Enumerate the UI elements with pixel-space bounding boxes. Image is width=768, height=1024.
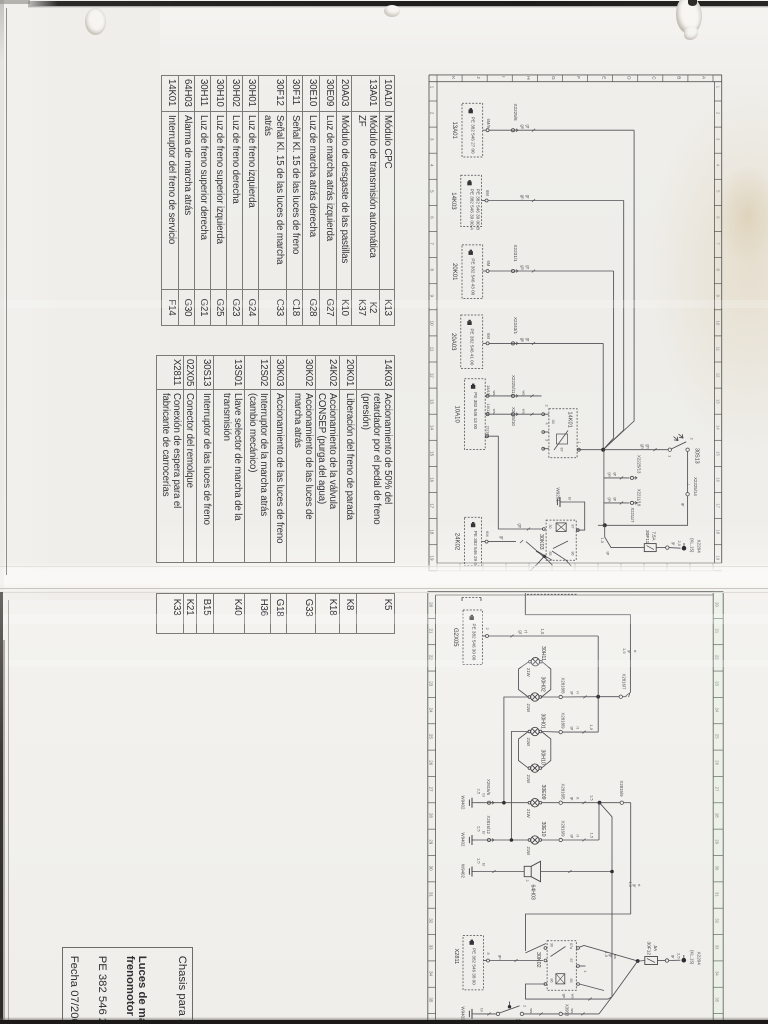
svg-text:X2818/9: X2818/9	[561, 713, 566, 730]
connector X2225/8	[511, 104, 518, 132]
fuse 30F12 5A	[640, 942, 658, 965]
connector X2818/8	[542, 678, 566, 699]
ground W9402 third	[461, 858, 487, 878]
svg-text:D: D	[626, 76, 631, 80]
svg-text:6M: 6M	[486, 333, 491, 339]
module X2811 (body builder connector)	[453, 936, 483, 990]
svg-text:31: 31	[715, 892, 720, 897]
svg-text:27: 27	[428, 787, 433, 792]
wire lamp pair 2 ground side	[511, 732, 528, 841]
svg-text:gr: gr	[525, 338, 530, 342]
svg-text:14K01: 14K01	[567, 412, 573, 428]
svg-text:13: 13	[715, 399, 720, 404]
svg-text:X2211/7: X2211/7	[630, 508, 635, 524]
svg-text:br: br	[482, 863, 487, 867]
svg-text:1: 1	[715, 86, 720, 89]
svg-text:X2225/10: X2225/10	[511, 407, 516, 426]
svg-text:PE 382 546 38 00: PE 382 546 38 00	[472, 948, 477, 985]
connector X2816/9	[542, 821, 566, 842]
pin 24K02 output	[482, 531, 490, 543]
lamp 30H01 (left brake lamp)	[526, 714, 546, 747]
svg-text:16: 16	[715, 477, 720, 482]
connector X2225/14	[681, 477, 698, 507]
wire 30K02 output to fuse node	[579, 946, 637, 962]
lamp 30E10 (right reverse lamp)	[526, 822, 546, 856]
svg-text:30H02: 30H02	[540, 677, 546, 692]
top edge dark strip	[28, 1, 768, 6]
svg-text:PE 382 546 30 00: PE 382 546 30 00	[472, 624, 477, 661]
sheet 1 row number ruler (bottom of original, numbers 1-19)	[429, 75, 722, 571]
wire ground to lamp 30E09	[476, 802, 528, 804]
svg-text:30: 30	[428, 866, 433, 871]
legend table 2 code column	[156, 593, 395, 634]
pin 14K01 output pin 1	[577, 442, 581, 452]
svg-text:gn: gn	[520, 195, 525, 200]
lamp 30H02 (right brake lamp)	[526, 677, 546, 713]
svg-text:8: 8	[486, 953, 490, 955]
terminal X2204 (KL.15) sheet1	[682, 538, 702, 553]
svg-text:A: A	[702, 76, 707, 80]
wire X2225/14 down and left to node	[605, 496, 688, 525]
svg-text:14: 14	[430, 425, 435, 430]
pin 30K02 pins	[544, 947, 579, 986]
svg-text:3: 3	[715, 138, 720, 141]
schematic sheet 2 border frame	[428, 592, 723, 1024]
node fuse junction	[636, 959, 640, 963]
svg-text:16/11: 16/11	[486, 404, 491, 414]
svg-text:30: 30	[548, 525, 552, 529]
svg-text:20: 20	[428, 602, 433, 607]
node 64H03 bus dot	[610, 870, 614, 874]
connector X2225/10	[511, 407, 518, 426]
svg-text:br: br	[482, 831, 487, 835]
svg-text:20: 20	[715, 602, 720, 607]
punch hole 2	[384, 5, 400, 17]
wire connector to diagonal (ws)	[562, 1008, 599, 1015]
connector X2816/12	[486, 816, 494, 842]
svg-text:gr: gr	[525, 265, 530, 269]
svg-text:G: G	[551, 76, 556, 80]
svg-text:35: 35	[715, 997, 720, 1002]
svg-text:1,5: 1,5	[590, 795, 595, 801]
wire X2811 to relay 30K02 (gn)	[490, 955, 544, 962]
svg-text:4: 4	[545, 423, 549, 425]
svg-text:11: 11	[715, 347, 720, 352]
wire fold feed to X2816/7	[525, 592, 638, 698]
module 24K02 (CONSEP valve)	[454, 517, 482, 566]
fold seam band	[0, 563, 768, 591]
connector X2818/9	[542, 713, 566, 734]
svg-text:(KL.15): (KL.15)	[689, 950, 694, 965]
svg-text:X2816/6: X2816/6	[486, 779, 491, 796]
svg-text:30K03: 30K03	[538, 534, 544, 550]
svg-text:30F11: 30F11	[644, 530, 650, 544]
svg-text:X2211/18: X2211/18	[637, 489, 642, 507]
svg-text:86: 86	[550, 979, 554, 983]
wire junction drop	[603, 450, 605, 526]
svg-text:6M: 6M	[485, 531, 490, 537]
lamp 30H11 (right upper brake lamp)	[526, 646, 546, 677]
bottom edge dark strip	[0, 1020, 768, 1024]
svg-text:11: 11	[430, 347, 435, 352]
svg-text:gr: gr	[525, 195, 530, 199]
module 13A01 (ZF transmission module)	[451, 103, 483, 157]
wire bus G2X05 corner	[597, 636, 599, 697]
svg-text:14: 14	[715, 425, 720, 430]
svg-text:X2225/11: X2225/11	[511, 375, 516, 394]
svg-text:13: 13	[430, 399, 435, 404]
legend table 2	[156, 355, 395, 563]
module fragment at fold left	[462, 598, 481, 602]
svg-text:X2225/8: X2225/8	[513, 104, 518, 122]
ground W9402 second	[461, 826, 487, 847]
svg-text:gr: gr	[606, 552, 611, 556]
svg-text:19: 19	[715, 556, 720, 561]
svg-text:3: 3	[430, 138, 435, 141]
connector X2818/5	[542, 784, 566, 805]
svg-text:gn: gn	[640, 444, 645, 449]
svg-text:gr: gr	[681, 503, 686, 507]
svg-text:2: 2	[525, 880, 529, 882]
svg-text:1,5: 1,5	[476, 858, 481, 864]
svg-text:1: 1	[686, 484, 690, 486]
svg-text:18: 18	[715, 529, 720, 534]
svg-text:4: 4	[715, 164, 720, 167]
svg-text:ws: ws	[571, 994, 576, 999]
wire lamp pair 1 parallel loop	[519, 662, 551, 697]
svg-text:PE 382 546 41 00: PE 382 546 41 00	[469, 329, 474, 366]
svg-text:15: 15	[715, 451, 720, 456]
wire 30K02 lower right stub	[579, 984, 604, 991]
svg-text:87: 87	[571, 525, 575, 529]
svg-text:34: 34	[715, 971, 720, 976]
wire switch to connector (ws)	[524, 1008, 559, 1015]
pin 10A10 18/15	[485, 385, 491, 397]
svg-text:PE 382 546 39 00-A: PE 382 546 39 00-A	[469, 189, 474, 231]
svg-text:gn: gn	[520, 265, 525, 270]
svg-text:2: 2	[545, 405, 549, 407]
wire 14K03 to junction (gn/gr)	[488, 195, 624, 450]
svg-text:19: 19	[430, 556, 435, 561]
svg-text:2: 2	[715, 112, 720, 115]
svg-text:5: 5	[715, 190, 720, 193]
svg-text:25: 25	[715, 734, 720, 739]
svg-text:ws: ws	[492, 409, 497, 414]
wire relay blade	[526, 944, 547, 953]
pin 14K03 output	[482, 190, 490, 202]
wire junction to 30S13 (gn/gn)	[603, 444, 668, 451]
svg-text:3: 3	[545, 439, 549, 441]
svg-text:X2818/5: X2818/5	[561, 784, 566, 801]
wire G2X05 to bus (gr/rt 1,5)	[489, 629, 599, 638]
svg-text:31: 31	[428, 892, 433, 897]
svg-text:21W: 21W	[526, 668, 531, 677]
ground W9402 first	[461, 789, 487, 810]
svg-text:X2816/9: X2816/9	[561, 821, 566, 838]
svg-text:13A01: 13A01	[451, 121, 457, 139]
connector X2231/1	[511, 245, 518, 273]
svg-text:X2204: X2204	[697, 540, 702, 554]
svg-text:W9201: W9201	[556, 488, 561, 503]
svg-text:X2225/13: X2225/13	[637, 455, 642, 474]
svg-text:30: 30	[715, 866, 720, 871]
module 20A03 (pad wear module)	[450, 315, 483, 369]
svg-text:15: 15	[430, 451, 435, 456]
svg-text:rt: rt	[575, 835, 580, 838]
svg-text:gr: gr	[672, 542, 677, 546]
svg-text:30K02: 30K02	[535, 952, 541, 968]
wire 14K01 to main junction	[581, 449, 604, 451]
node main junction (brake light signal)	[601, 448, 605, 452]
svg-text:gr: gr	[671, 955, 676, 959]
svg-text:2,5: 2,5	[677, 953, 682, 959]
svg-text:30: 30	[550, 943, 554, 947]
svg-text:18/15: 18/15	[486, 385, 491, 396]
svg-text:br: br	[482, 794, 487, 798]
svg-text:rt: rt	[575, 691, 580, 694]
connector X2815/9	[601, 781, 630, 805]
label bus colors	[628, 882, 642, 889]
svg-text:25: 25	[428, 734, 433, 739]
pin 20A03 output	[483, 333, 491, 345]
scanner streak bands	[0, 614, 768, 624]
wire 30K03 contacts to fold	[536, 551, 569, 564]
svg-text:gr: gr	[518, 630, 523, 634]
wire 20K01 to junction (gn/gr)	[489, 265, 613, 449]
node lower junction	[603, 523, 607, 527]
svg-text:G2X05: G2X05	[452, 628, 458, 647]
svg-text:17: 17	[430, 503, 435, 508]
module 14K03 (retarder 50% actuation)	[450, 175, 482, 231]
pin G2X05 output 2	[483, 628, 491, 638]
wire 10A10 to 14K01 pin 4 (ws)	[489, 409, 541, 416]
svg-text:1,5: 1,5	[628, 882, 633, 888]
wire ground to switch (br)	[476, 1008, 496, 1015]
svg-text:gr: gr	[613, 472, 618, 476]
svg-text:gn: gn	[646, 444, 651, 449]
svg-text:6M/9: 6M/9	[486, 119, 491, 129]
svg-text:(KL.15): (KL.15)	[690, 538, 695, 553]
svg-text:87: 87	[569, 959, 573, 963]
svg-text:gr: gr	[500, 536, 505, 540]
svg-text:ws: ws	[613, 954, 618, 959]
svg-text:W9402: W9402	[461, 796, 466, 810]
svg-text:35: 35	[428, 997, 433, 1002]
svg-text:87a: 87a	[569, 943, 573, 949]
wire bus down to lamp pair 2	[597, 697, 599, 732]
svg-text:9: 9	[430, 295, 435, 298]
svg-text:7,5A: 7,5A	[651, 532, 656, 541]
svg-text:16: 16	[430, 477, 435, 482]
svg-text:2,5: 2,5	[476, 789, 481, 795]
svg-text:X2815/9: X2815/9	[619, 781, 624, 798]
svg-text:10: 10	[715, 321, 720, 326]
svg-text:X2811: X2811	[453, 949, 459, 965]
connector X2243/1	[511, 317, 518, 345]
svg-text:gn: gn	[520, 125, 525, 130]
svg-text:1,5: 1,5	[540, 629, 545, 635]
svg-text:7: 7	[430, 242, 435, 245]
wire X2818/8 to bus node (gr/rt)	[562, 691, 598, 698]
svg-text:8: 8	[715, 268, 720, 271]
svg-text:30H01: 30H01	[540, 714, 546, 729]
svg-text:1,5: 1,5	[589, 725, 594, 731]
svg-text:21W: 21W	[526, 704, 531, 713]
svg-text:28: 28	[715, 813, 720, 818]
svg-text:21W: 21W	[526, 775, 531, 784]
svg-text:14K03: 14K03	[450, 192, 456, 210]
wire 64H03 to bus	[541, 870, 613, 873]
svg-text:br: br	[480, 1008, 485, 1012]
ground W9402 fourth	[461, 1007, 477, 1021]
svg-text:X2816/12: X2816/12	[486, 816, 491, 835]
svg-text:gr: gr	[632, 884, 637, 888]
svg-text:24: 24	[715, 708, 720, 713]
svg-text:5: 5	[430, 190, 435, 193]
svg-text:27: 27	[715, 787, 720, 792]
svg-text:W9402: W9402	[461, 833, 466, 847]
svg-text:1,5: 1,5	[622, 648, 627, 654]
svg-text:gr: gr	[570, 691, 575, 695]
connector X2225/11	[511, 375, 518, 398]
lamp 30H10 (left upper brake lamp)	[526, 750, 546, 784]
schematic sheet 1 border frame	[429, 75, 722, 571]
svg-text:30E09: 30E09	[540, 785, 546, 800]
svg-text:8: 8	[430, 268, 435, 271]
svg-text:rt: rt	[575, 797, 580, 800]
wire X2818/9 to bus (gr/rt 1,5)	[562, 725, 598, 734]
svg-text:85: 85	[569, 979, 573, 983]
pin 13A01 output	[483, 119, 491, 132]
svg-text:gr: gr	[570, 835, 575, 839]
wire X2816/9 up to reverse node (1,5 gr rt)	[562, 803, 599, 842]
svg-text:33: 33	[715, 945, 720, 950]
svg-text:br: br	[568, 497, 573, 501]
svg-text:,5A: ,5A	[653, 945, 658, 952]
title block	[62, 947, 193, 1024]
svg-text:X2204: X2204	[696, 952, 701, 966]
svg-text:32: 32	[715, 918, 720, 923]
svg-text:26: 26	[428, 760, 433, 765]
wire lamp pair 2 parallel loop	[519, 732, 551, 769]
wire node diagonal down to switch row	[599, 961, 638, 1014]
connector after fuse	[656, 541, 682, 550]
connector after fuse 30F12	[658, 953, 682, 962]
node ground rail pair2	[510, 838, 514, 842]
svg-text:21/16: 21/16	[485, 426, 490, 437]
svg-text:ws: ws	[522, 391, 527, 396]
svg-text:30F12: 30F12	[646, 942, 652, 956]
svg-text:I: I	[501, 76, 506, 77]
svg-text:PE 382 546 43 00: PE 382 546 43 00	[471, 258, 476, 295]
left edge shadow lines	[6, 8, 7, 575]
ground W9201	[556, 488, 573, 508]
svg-text:86: 86	[571, 552, 575, 556]
svg-text:34: 34	[428, 971, 433, 976]
connector X2816/6	[486, 779, 494, 804]
svg-text:6M: 6M	[485, 190, 490, 196]
connector X2816/7	[619, 674, 627, 699]
svg-text:J: J	[476, 76, 481, 78]
svg-text:X2816/7: X2816/7	[622, 674, 627, 691]
switch 12S02 (reverse gear switch)	[496, 1002, 527, 1024]
wire 24K02 diagonal to fold (gr)	[488, 536, 552, 566]
svg-text:12: 12	[715, 373, 720, 378]
svg-text:1,5: 1,5	[590, 833, 595, 839]
svg-text:rt: rt	[523, 630, 528, 633]
svg-text:12: 12	[430, 373, 435, 378]
svg-text:PE 382 546 27 00: PE 382 546 27 00	[471, 117, 476, 154]
svg-text:K: K	[451, 76, 456, 80]
punch hole 3 (torn)	[676, 0, 702, 34]
svg-text:1: 1	[430, 86, 435, 89]
wire 30K03 to ground W9201	[564, 502, 585, 531]
module fragment at fold (30K02 mirror)	[527, 593, 578, 595]
svg-text:6: 6	[715, 216, 720, 219]
svg-text:30H10: 30H10	[540, 750, 546, 765]
wire ground to lamp 30E10	[476, 839, 528, 841]
module 20K01 (park brake release)	[451, 245, 483, 299]
svg-text:30E10: 30E10	[540, 822, 546, 837]
wire 30S13 down to X2225/14	[687, 451, 689, 492]
svg-text:gn: gn	[562, 994, 567, 998]
svg-text:29: 29	[428, 839, 433, 844]
svg-text:gn: gn	[608, 497, 613, 501]
svg-text:30: 30	[551, 420, 555, 424]
svg-text:24K02: 24K02	[454, 533, 460, 551]
svg-text:gn: gn	[608, 472, 613, 476]
svg-text:64H03: 64H03	[530, 885, 536, 900]
svg-text:E: E	[601, 76, 606, 79]
svg-text:21W: 21W	[526, 809, 531, 818]
svg-text:X2818/8: X2818/8	[561, 678, 566, 695]
svg-text:1: 1	[668, 455, 673, 458]
relay 30K03 (brake light relay)	[538, 520, 576, 560]
svg-text:2: 2	[430, 112, 435, 115]
connector X2225/13 stub	[604, 455, 642, 480]
node reverse lamp junction	[598, 801, 602, 805]
svg-text:21: 21	[715, 629, 720, 634]
svg-text:gr: gr	[570, 797, 575, 801]
wire bus into fuse node labels	[604, 952, 618, 959]
svg-text:21W: 21W	[526, 738, 531, 747]
svg-text:4: 4	[430, 164, 435, 167]
svg-text:2: 2	[485, 628, 490, 631]
svg-text:20A03: 20A03	[450, 333, 456, 351]
svg-text:rt: rt	[633, 650, 638, 653]
switch 30S13 (brake light switch)	[668, 434, 700, 464]
svg-text:C: C	[651, 76, 656, 80]
wire X2815/9 to relay bus	[630, 803, 632, 914]
svg-text:9: 9	[715, 295, 720, 298]
svg-text:1,5: 1,5	[600, 538, 605, 544]
svg-text:X2243/1: X2243/1	[513, 317, 518, 335]
node ground rail pair1	[502, 801, 506, 805]
svg-text:gn: gn	[498, 955, 503, 959]
wire 10A10 pin to relay 30K03 coil (gn)	[489, 436, 543, 530]
svg-text:gr: gr	[608, 954, 613, 958]
terminal X2204 (KL.15) sheet2	[682, 950, 702, 965]
wire node continue left (gn/gr)	[598, 524, 605, 526]
sheet 2 row number rulers (numbers 20-35)	[428, 592, 723, 1014]
svg-text:18: 18	[430, 529, 435, 534]
svg-text:7: 7	[715, 242, 720, 245]
module 10A10 (CPC module)	[454, 379, 486, 450]
svg-text:gn: gn	[520, 338, 525, 343]
wire node diagonal to lower bus	[600, 803, 613, 997]
connector X3953	[559, 1004, 570, 1017]
wire 13A01 to junction (gn/gr)	[489, 125, 634, 450]
